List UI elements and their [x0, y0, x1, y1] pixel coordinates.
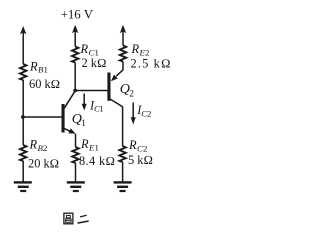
- svg-text:R: R: [80, 42, 89, 56]
- svg-text:R: R: [131, 42, 140, 56]
- svg-text:5 kΩ: 5 kΩ: [128, 153, 153, 167]
- svg-text:R: R: [29, 59, 38, 73]
- svg-text:2: 2: [147, 109, 151, 119]
- svg-text:20 kΩ: 20 kΩ: [28, 156, 59, 170]
- svg-text:8.4 kΩ: 8.4 kΩ: [79, 154, 115, 168]
- svg-text:60 kΩ: 60 kΩ: [29, 77, 60, 91]
- svg-text:1: 1: [95, 142, 99, 152]
- svg-text:2: 2: [143, 144, 147, 154]
- svg-text:R: R: [29, 138, 38, 152]
- svg-text:2: 2: [43, 143, 47, 153]
- svg-text:1: 1: [99, 104, 103, 114]
- svg-text:2: 2: [129, 88, 134, 98]
- svg-text:R: R: [128, 138, 137, 152]
- svg-text:1: 1: [44, 65, 48, 75]
- svg-text:R: R: [80, 137, 89, 151]
- svg-text:+16 V: +16 V: [61, 8, 94, 22]
- svg-text:1: 1: [81, 118, 86, 128]
- svg-text:2 kΩ: 2 kΩ: [82, 56, 107, 70]
- svg-text:2.5 kΩ: 2.5 kΩ: [131, 57, 172, 71]
